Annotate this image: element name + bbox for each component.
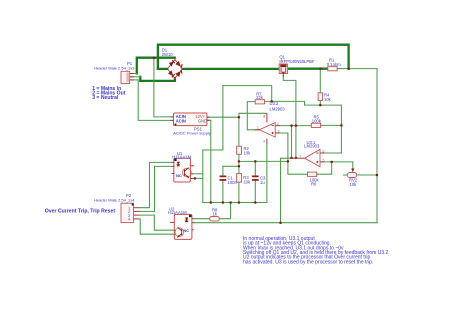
wire: node line xyxy=(239,160,288,162)
svg-text:2: 2 xyxy=(277,122,279,126)
svg-text:10k: 10k xyxy=(350,182,358,187)
svg-text:100n: 100n xyxy=(228,180,238,185)
wire: P2 pin2 to U1 xyxy=(140,166,172,211)
wire: bridge right to Q1 xyxy=(183,68,280,70)
wire: R2 column xyxy=(238,117,240,146)
svg-text:LM2903: LM2903 xyxy=(304,143,320,148)
wire: GND drop xyxy=(207,120,211,202)
svg-text:3: 3 xyxy=(278,129,280,133)
wire: P2 pin1 to U1 xyxy=(140,162,172,207)
wire: R5 right xyxy=(321,124,342,126)
svg-text:0.1ohm: 0.1ohm xyxy=(327,62,341,67)
wire: R4 bottom xyxy=(319,101,321,106)
wire: U3.2 pin3 to R6 xyxy=(280,133,308,174)
wire: R7 left to U3.2 out xyxy=(247,102,259,130)
capacitor C3 xyxy=(252,176,259,181)
optocoupler U2 xyxy=(170,214,194,239)
header P2 xyxy=(121,203,140,222)
wire: collector column zbend xyxy=(203,86,223,203)
svg-text:Header Male 2.54_1x3: Header Male 2.54_1x3 xyxy=(94,66,135,71)
wire: U3.1 output down xyxy=(281,158,292,223)
wire: mains-in drop to PS1 xyxy=(154,58,174,117)
svg-text:100k: 100k xyxy=(312,119,322,124)
svg-text:IRFPS40N50LPBF: IRFPS40N50LPBF xyxy=(279,59,315,64)
wire: RV2 left stub xyxy=(343,174,347,176)
svg-text:NC: NC xyxy=(183,228,189,233)
wire: 12V+ from PS1 xyxy=(207,116,239,118)
wire: C3 top xyxy=(254,161,256,175)
svg-text:AC/DC Power supply: AC/DC Power supply xyxy=(173,131,211,136)
wire: thick mains-out to bridge bottom xyxy=(140,77,175,81)
svg-text:10k: 10k xyxy=(324,97,332,102)
wire: thick mains-in to bridge top xyxy=(137,58,175,74)
svg-text:Over Current Trip, Trip Reset: Over Current Trip, Trip Reset xyxy=(45,208,116,214)
resistor R4 xyxy=(318,93,323,101)
svg-text:has activated. U3 is used by t: has activated. U3 is used by the process… xyxy=(243,259,373,265)
svg-text:NC: NC xyxy=(176,173,182,178)
svg-text:R6: R6 xyxy=(311,182,317,187)
svg-text:U3.2: U3.2 xyxy=(270,101,280,106)
wire: right rail xyxy=(349,69,377,223)
wire: R8 left xyxy=(194,218,210,220)
wire: R7 right line xyxy=(265,101,342,153)
capacitor C1 xyxy=(220,176,227,181)
svg-text:H11AA1M: H11AA1M xyxy=(168,210,187,215)
resistor R3 xyxy=(237,174,242,183)
svg-text:7: 7 xyxy=(300,154,302,158)
potentiometer RV2 xyxy=(347,169,356,178)
resistor R5 xyxy=(311,123,320,127)
wire: R1 right to corner xyxy=(337,68,348,70)
op-amp U3.1 xyxy=(291,149,324,167)
wire: P2 pin3 to U2 xyxy=(140,215,177,230)
annotation: description block xyxy=(243,236,390,266)
wire: C1 bottom xyxy=(222,181,224,203)
svg-text:GND: GND xyxy=(198,118,207,123)
wire: bridge left stub xyxy=(158,68,167,70)
svg-text:H11AA1M: H11AA1M xyxy=(172,154,191,159)
LED pair xyxy=(177,162,181,165)
svg-text:22k: 22k xyxy=(256,95,264,100)
svg-text:1: 1 xyxy=(257,126,259,130)
resistor R6 xyxy=(308,172,317,176)
svg-text:10k: 10k xyxy=(244,151,252,156)
transistor xyxy=(182,168,191,177)
wire: Q1 to R1 xyxy=(288,68,328,70)
wire: R8 right jog up xyxy=(219,203,230,219)
resistor R7 xyxy=(255,100,264,104)
wire: R6 right up to pin5 line xyxy=(317,162,332,174)
wire: C3 bottom xyxy=(254,181,256,203)
svg-text:5: 5 xyxy=(323,158,325,162)
wire: Q1 gate run xyxy=(283,76,296,158)
wire: P1 pin stubs xyxy=(130,73,137,75)
svg-text:LM2903: LM2903 xyxy=(270,107,286,112)
svg-text:ACIN: ACIN xyxy=(176,118,186,123)
svg-text:10k: 10k xyxy=(243,179,251,184)
wire: U1 pin lines xyxy=(191,173,203,175)
svg-text:2W10: 2W10 xyxy=(162,52,174,57)
wire: neutral drop to PS1 xyxy=(138,80,173,121)
wire: pin5 line to RV2 wiper xyxy=(324,162,353,168)
wire: U3.2 pin4 down xyxy=(266,142,268,203)
op-amp U3.2 xyxy=(255,123,280,144)
svg-text:4: 4 xyxy=(263,140,265,144)
wire: thick mains top rail xyxy=(158,45,349,69)
wire: U3.2 pin2 line to R5 xyxy=(280,125,311,127)
wire: bottom rail xyxy=(203,202,267,204)
wire: RV2 right xyxy=(357,174,377,176)
transistor mirrored xyxy=(175,228,184,237)
header P1 xyxy=(121,71,134,83)
wire: 12V+ jog to U3.2 pin8 xyxy=(239,113,267,117)
wire: C1 top hook xyxy=(223,166,239,175)
svg-text:8: 8 xyxy=(263,115,265,119)
svg-text:Header Male 2.54_1x4: Header Male 2.54_1x4 xyxy=(94,198,135,203)
junction dots xyxy=(153,56,379,224)
wire: R4 top column xyxy=(319,69,321,93)
svg-text:1u: 1u xyxy=(260,180,265,185)
wire: twin vertical A xyxy=(291,126,293,158)
wire: long bottom line xyxy=(194,222,377,224)
LED pair mirrored xyxy=(185,217,189,220)
optocoupler U1 xyxy=(172,158,195,182)
resistor R2 xyxy=(237,146,242,154)
bridge rectifier D1 xyxy=(167,58,182,81)
power supply PS1 xyxy=(171,113,210,126)
resistor R1 xyxy=(328,67,337,71)
transistor Q1 xyxy=(279,64,287,77)
wire: P2 pin4 to U2 xyxy=(140,219,177,234)
svg-text:6: 6 xyxy=(323,149,325,153)
resistor R8 xyxy=(210,217,220,221)
wire: U3.2 V+ pin8 red xyxy=(266,114,268,123)
wire: collector top line xyxy=(223,86,272,102)
svg-text:3 = Neutral: 3 = Neutral xyxy=(92,95,119,101)
